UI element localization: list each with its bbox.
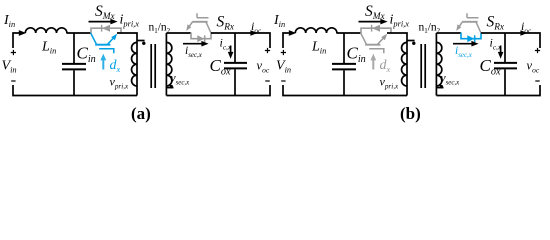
svg-text:(a): (a) xyxy=(131,104,151,123)
svg-text:ioc: ioc xyxy=(521,19,532,35)
switch SRx diode branch (staple below wire) xyxy=(461,33,481,39)
wire: branch down to Cin xyxy=(343,33,345,63)
wire: SRx to output xyxy=(211,33,270,48)
transformer core xyxy=(151,44,155,88)
transformer primary winding xyxy=(137,40,145,42)
output rail bottom / bottom rail secondary xyxy=(166,85,270,96)
wire: branch down to Cin xyxy=(73,33,75,63)
svg-text:SMx: SMx xyxy=(95,3,115,22)
wire: branch down to Cox xyxy=(504,33,506,62)
svg-text:Cin: Cin xyxy=(77,44,96,66)
current arrow i_sec,x xyxy=(453,43,472,45)
wire: SMx to transformer primary xyxy=(387,33,407,41)
switch SMx antiparallel diode branch (gray staple) xyxy=(91,28,121,33)
bottom rail primary xyxy=(13,85,137,96)
diode of SRx (points right) xyxy=(467,35,474,42)
wire: secondary top to switch SRx xyxy=(166,32,191,34)
gate drive arrow d_x of SMx xyxy=(102,59,104,70)
svg-text:Iin: Iin xyxy=(3,13,15,29)
svg-text:SRx: SRx xyxy=(487,14,505,33)
wire: from inductor to switch SMx xyxy=(66,32,91,34)
IGBT of switch SRx xyxy=(186,13,211,33)
polarity dot primary xyxy=(142,42,145,45)
wire: SMx to transformer primary xyxy=(117,33,137,41)
gate drive arrow d_x of SMx xyxy=(372,59,374,70)
plus mark output xyxy=(535,48,540,53)
plus mark input xyxy=(11,50,16,55)
current arrow i_c,x xyxy=(500,46,502,54)
svg-text:ic,x: ic,x xyxy=(490,36,502,52)
wire: branch down to Cox xyxy=(234,33,236,62)
polarity dot primary xyxy=(412,42,415,45)
svg-text:vsec,x: vsec,x xyxy=(171,73,191,87)
bottom rail primary xyxy=(283,85,407,96)
transformer primary winding xyxy=(407,40,415,42)
polarity dot secondary xyxy=(440,85,443,88)
svg-text:Vin: Vin xyxy=(276,59,291,75)
svg-text:vpri,x: vpri,x xyxy=(380,75,400,91)
output rail bottom / bottom rail secondary xyxy=(436,85,540,96)
switch SRx diode branch (staple below wire) xyxy=(191,33,211,39)
capacitor Cox xyxy=(224,63,247,69)
wire: SRx to output xyxy=(481,33,540,48)
wire: Iin arrowhead on input wire xyxy=(19,30,26,36)
svg-text:ipri,x: ipri,x xyxy=(120,13,140,29)
svg-text:ioc: ioc xyxy=(251,19,262,35)
IGBT of switch SMx xyxy=(91,33,118,53)
diode of SMx (points left) xyxy=(371,25,373,32)
minus mark input xyxy=(11,80,15,82)
svg-text:Cin: Cin xyxy=(347,44,366,66)
node b: input + terminal rail top xyxy=(283,33,289,48)
svg-text:vsec,x: vsec,x xyxy=(441,73,461,87)
plus mark output xyxy=(265,48,270,53)
IGBT of switch SRx xyxy=(456,13,481,33)
svg-text:ipri,x: ipri,x xyxy=(390,13,410,29)
svg-text:voc: voc xyxy=(257,59,270,75)
polarity dot secondary xyxy=(170,85,173,88)
inductor Lin xyxy=(25,28,67,33)
switch SMx antiparallel diode branch (gray staple) xyxy=(361,28,391,33)
svg-text:isec,x: isec,x xyxy=(455,45,473,59)
svg-text:(b): (b) xyxy=(400,104,421,123)
transformer secondary winding xyxy=(435,33,437,96)
svg-text:Lin: Lin xyxy=(41,40,56,56)
inductor Lin xyxy=(295,28,337,33)
capacitor Cin xyxy=(62,64,86,70)
diode of SRx (points right) xyxy=(197,35,204,42)
svg-text:dx: dx xyxy=(380,58,391,74)
transformer core xyxy=(421,44,425,88)
svg-text:voc: voc xyxy=(527,59,540,75)
minus mark input xyxy=(281,80,285,82)
svg-text:SRx: SRx xyxy=(217,14,235,33)
svg-text:Cox: Cox xyxy=(210,56,231,78)
arrowhead i_oc xyxy=(250,30,257,36)
svg-text:ic,x: ic,x xyxy=(220,36,232,52)
capacitor Cox xyxy=(494,63,517,69)
wire: from inductor to switch SMx xyxy=(336,32,361,34)
minus mark output xyxy=(535,80,539,82)
svg-text:Cox: Cox xyxy=(480,56,501,78)
svg-text:dx: dx xyxy=(110,58,121,74)
svg-text:vpri,x: vpri,x xyxy=(110,75,130,91)
current arrow i_sec,x xyxy=(183,43,202,45)
current arrow i_c,x xyxy=(230,46,232,54)
transformer secondary winding xyxy=(165,33,167,96)
wire: secondary top to switch SRx xyxy=(436,32,461,34)
svg-text:Iin: Iin xyxy=(273,13,285,29)
current arrow i_pri,x xyxy=(89,21,112,23)
capacitor Cin xyxy=(332,64,356,70)
svg-text:Lin: Lin xyxy=(311,40,326,56)
svg-text:SMx: SMx xyxy=(365,3,385,22)
svg-text:isec,x: isec,x xyxy=(185,45,203,59)
IGBT of switch SMx xyxy=(361,33,388,53)
svg-text:Vin: Vin xyxy=(2,59,17,75)
wire: Iin arrowhead on input wire xyxy=(289,30,296,36)
plus mark input xyxy=(281,50,286,55)
node a: input + terminal rail top xyxy=(13,33,19,48)
current arrow i_pri,x xyxy=(359,21,382,23)
arrowhead i_oc xyxy=(520,30,527,36)
diode of SMx (points left) xyxy=(101,25,103,32)
minus mark output xyxy=(265,80,269,82)
